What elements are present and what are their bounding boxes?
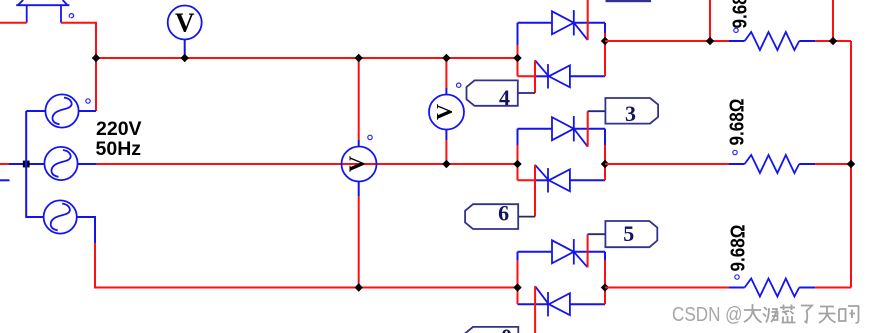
connector tag 6: [465, 201, 518, 230]
svg-text:0: 0: [501, 324, 512, 333]
junction: [706, 37, 714, 45]
connector tag 3: [605, 98, 658, 126]
junction: [92, 54, 100, 62]
rail left pair1: [517, 23, 519, 45]
transformer T1 (partially cut off at top): [16, 0, 69, 23]
svg-text:5: 5: [623, 221, 634, 246]
junction: [847, 160, 855, 168]
terminal mark: [734, 28, 738, 32]
junction: [829, 37, 837, 45]
le: [801, 306, 812, 323]
wire gate Q6 to bottom edge (tag 0): [534, 286, 536, 333]
junction: [513, 54, 521, 62]
svg-text:6: 6: [498, 201, 509, 226]
junction: [181, 54, 189, 62]
svg-text:4: 4: [499, 85, 510, 110]
svg-text:9.68Ω: 9.68Ω: [730, 0, 752, 29]
thyristor Q6 (points left): [518, 286, 606, 316]
svg-text:50Hz: 50Hz: [96, 138, 142, 160]
lead V3 left: [26, 111, 43, 217]
wire R1 right to rail: [815, 40, 851, 42]
wire left stub to T1: [0, 22, 27, 24]
AC source V1: [45, 94, 78, 127]
svg-text:CSDN @: CSDN @: [672, 303, 743, 326]
wire gate Q2 to tag 4: [534, 60, 536, 93]
wire T1 right leg to node A column: [61, 23, 96, 111]
connector tag 4: [467, 80, 518, 110]
wire pair1 output to R1: [605, 40, 729, 42]
svg-text:3: 3: [625, 101, 636, 126]
lead V1 right: [79, 110, 96, 112]
junction: [601, 37, 609, 45]
junction: [513, 283, 521, 291]
terminal mark: [735, 275, 739, 279]
wire gate Q5 to tag 5: [587, 234, 589, 267]
wire pair2 output to R2: [605, 163, 729, 165]
watermark: [672, 303, 743, 326]
hai: [763, 307, 778, 323]
rail right pair3: [604, 252, 606, 260]
svg-text:9.68Ω: 9.68Ω: [727, 99, 749, 146]
rail left pair2: [517, 129, 519, 145]
wire gate Q4 to tag 6: [534, 165, 536, 217]
terminal mark: [86, 99, 90, 103]
terminal mark: [457, 83, 461, 87]
watermark hanzi: [744, 304, 859, 323]
thyristor Q5 (points right): [518, 239, 606, 267]
wire gate Q3 to tag 3: [587, 111, 589, 147]
lead V2 right: [78, 163, 97, 165]
junction: [601, 160, 609, 168]
connector tag 5: [605, 221, 657, 247]
svg-text:V: V: [175, 7, 195, 37]
junction: [442, 160, 450, 168]
thyristor Q4 (points left): [518, 165, 606, 193]
junction: [442, 54, 450, 62]
thyristor Q2 (points left): [518, 60, 606, 88]
voltmeter U1: [168, 6, 202, 40]
terminal mark: [368, 135, 372, 139]
svg-text:9.68Ω: 9.68Ω: [728, 225, 750, 272]
connector tag 0 (cut off at bottom): [465, 324, 518, 333]
resistor R3 9.68ohm: [728, 225, 816, 297]
wire pair3 output to R3: [605, 287, 729, 289]
terminal mark a: [69, 14, 73, 18]
lead V3 right: [77, 217, 95, 243]
junction: [513, 160, 521, 168]
a: [839, 306, 859, 323]
connector tag (top, cut off): [606, 0, 652, 2]
thyristor Q3 (points right): [518, 116, 606, 147]
AC source V3: [44, 200, 77, 233]
lead V2 left: [9, 163, 44, 165]
rail left pair3: [517, 252, 519, 260]
lan: [780, 305, 796, 323]
wire top bus: [96, 57, 518, 59]
da: [744, 304, 762, 323]
svg-text:V: V: [344, 156, 369, 172]
wire vertical to top edge at 833: [832, 0, 834, 41]
lead V1 left: [26, 110, 45, 112]
wire middle bus: [97, 163, 518, 165]
wire gate Q1 to top edge: [587, 0, 589, 40]
wire stub left edge mid: [0, 163, 9, 165]
junction: [601, 283, 609, 291]
junction node N: [23, 161, 30, 168]
voltmeter U3 (line-voltage, vertical): [342, 58, 377, 288]
rail right pair2: [604, 129, 606, 145]
wire stub left edge lower: [0, 179, 10, 181]
tian: [819, 307, 836, 323]
lead U1 to top bus: [184, 40, 186, 59]
terminal mark: [733, 150, 737, 154]
wire R3 right to rail: [815, 287, 851, 289]
resistor R1 9.68ohm: [729, 0, 815, 50]
resistor R2 9.68ohm: [727, 99, 816, 174]
junction: [355, 54, 363, 62]
wire right rail: [850, 41, 852, 288]
rail right pair1: [604, 23, 606, 33]
thyristor Q1 (points right): [518, 10, 606, 40]
svg-text:V: V: [432, 104, 457, 120]
voltmeter U2 (phase-voltage): [429, 58, 464, 164]
junction: [355, 283, 363, 291]
wire vertical to top edge at 710: [709, 0, 711, 41]
svg-text:220V: 220V: [96, 118, 142, 140]
wire R2 right to rail: [815, 163, 851, 165]
AC source V2: [44, 147, 77, 180]
wire source V3 down to bottom bus: [95, 243, 518, 288]
